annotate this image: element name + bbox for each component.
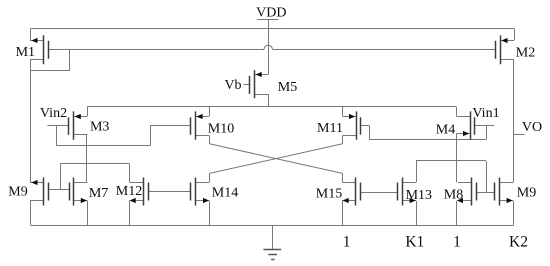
svg-text:VDD: VDD xyxy=(256,6,286,21)
svg-text:M10: M10 xyxy=(208,122,234,137)
svg-text:1: 1 xyxy=(453,234,461,251)
svg-text:M7: M7 xyxy=(89,186,108,201)
svg-text:M5: M5 xyxy=(278,80,297,95)
svg-text:M1: M1 xyxy=(16,45,35,60)
svg-text:M14: M14 xyxy=(212,185,238,200)
svg-text:M2: M2 xyxy=(516,46,535,61)
svg-text:K1: K1 xyxy=(405,233,424,250)
svg-text:M9: M9 xyxy=(8,185,27,200)
svg-text:Vb: Vb xyxy=(224,78,241,93)
svg-text:Vin1: Vin1 xyxy=(472,106,499,121)
svg-text:K2: K2 xyxy=(509,234,528,251)
svg-text:M15: M15 xyxy=(316,187,342,202)
svg-text:M8: M8 xyxy=(444,188,463,203)
svg-text:M11: M11 xyxy=(317,121,343,136)
svg-text:M3: M3 xyxy=(90,120,109,135)
svg-text:Vin2: Vin2 xyxy=(40,106,67,121)
svg-text:M4: M4 xyxy=(436,123,455,138)
svg-text:VO: VO xyxy=(522,120,542,135)
svg-text:1: 1 xyxy=(343,234,351,251)
svg-text:M13: M13 xyxy=(406,188,432,203)
svg-text:M9: M9 xyxy=(517,186,536,201)
svg-text:M12: M12 xyxy=(116,184,142,199)
